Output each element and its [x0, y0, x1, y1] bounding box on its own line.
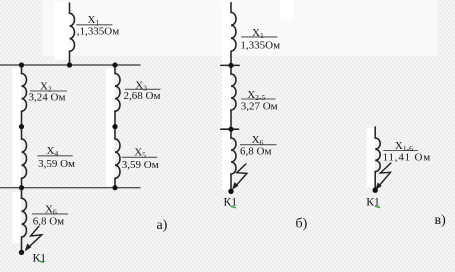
svg-text:а): а) [157, 218, 168, 233]
svg-text:б): б) [296, 217, 308, 232]
svg-text:3,24 Ом: 3,24 Ом [29, 91, 66, 103]
svg-text:К1: К1 [33, 251, 47, 264]
svg-text:К1: К1 [224, 196, 238, 209]
svg-text:,1,335Ом: ,1,335Ом [77, 25, 119, 37]
svg-text:1,335Ом: 1,335Ом [240, 39, 280, 51]
svg-text:в): в) [435, 213, 447, 228]
svg-text:3,27 Ом: 3,27 Ом [241, 101, 278, 113]
svg-text:6,8 Ом: 6,8 Ом [33, 216, 64, 228]
svg-text:11,41 Ом: 11,41 Ом [383, 152, 431, 164]
svg-text:6,8 Ом: 6,8 Ом [240, 146, 271, 158]
svg-text:3,59 Ом: 3,59 Ом [122, 159, 159, 171]
svg-text:3,59 Ом: 3,59 Ом [38, 158, 75, 170]
svg-text:2,68 Ом: 2,68 Ом [124, 90, 161, 102]
